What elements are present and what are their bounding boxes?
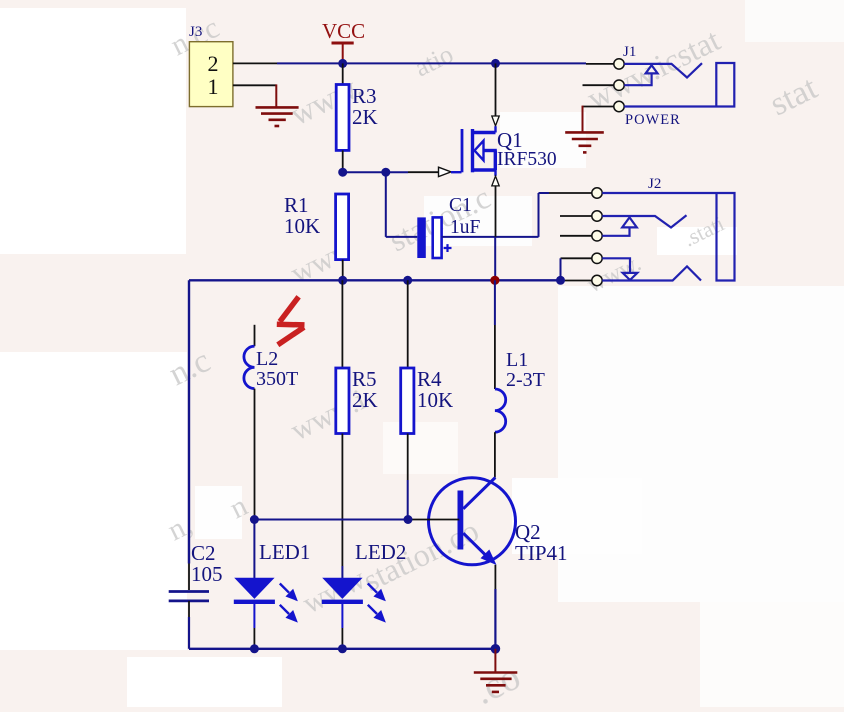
resistor R3	[336, 63, 349, 172]
connector J2 pin 3	[592, 231, 602, 241]
direction arrow on gate wire	[439, 167, 452, 176]
resistor R4	[401, 280, 414, 519]
node bus/R1/R5 junction	[338, 276, 347, 285]
wire J2 pin5 stub	[561, 280, 592, 282]
ground symbol below Q2	[474, 673, 518, 692]
svg-text:2K: 2K	[352, 388, 378, 412]
node emitter/bottom rail junction	[491, 644, 501, 654]
wire left rail down to C2	[188, 280, 190, 590]
svg-text:1uF: 1uF	[450, 217, 481, 238]
wire C2 to bottom rail	[188, 601, 190, 649]
svg-text:350T: 350T	[256, 368, 298, 390]
transistor Q1 (IRF530 MOSFET)	[462, 126, 497, 176]
svg-text:J2: J2	[648, 176, 661, 192]
svg-text:J3: J3	[189, 24, 202, 40]
wire main bus	[189, 279, 561, 281]
svg-text:C1: C1	[449, 195, 472, 216]
wire ground stem	[494, 649, 496, 672]
svg-text:IRF530: IRF530	[497, 149, 557, 170]
connector J2 pin 1	[592, 188, 602, 198]
wire arrow to Q1 gate	[451, 171, 462, 173]
wire J3 pin2 to VCC node	[233, 62, 343, 64]
node LED1/base wire junction	[250, 515, 259, 524]
svg-text:105: 105	[191, 562, 223, 586]
LED LED1	[234, 520, 296, 649]
svg-text:2-3T: 2-3T	[506, 369, 545, 391]
inductor L1	[495, 280, 506, 477]
wire J2 pin4 to bus node	[561, 258, 592, 280]
power symbol VCC	[332, 43, 354, 63]
node R4/base wire junction	[404, 515, 413, 524]
node gate/C1 branch junction	[381, 168, 390, 177]
svg-text:L2: L2	[256, 348, 278, 370]
ground symbol below J1	[565, 132, 604, 152]
node LED1/bottom rail junction	[250, 644, 259, 653]
connector J1 pin 3	[614, 101, 624, 111]
connector J1 pin 1	[614, 59, 624, 69]
wire VCC node to J1 pin1	[343, 62, 614, 65]
svg-text:10K: 10K	[284, 214, 320, 238]
svg-text:2K: 2K	[352, 105, 378, 129]
wire bottom rail	[189, 648, 495, 650]
wire J2 pin2 stub	[560, 215, 592, 217]
connector J2 pin 5	[592, 275, 602, 285]
audio jack symbol J2	[602, 193, 734, 281]
node Q1 drain / top bus junction	[491, 59, 500, 68]
capacitor C1	[417, 217, 451, 258]
direction arrow on drain wire	[492, 116, 499, 126]
connector J2 pin 4	[592, 253, 602, 263]
direction arrow on source wire	[492, 176, 499, 186]
svg-text:2: 2	[208, 51, 219, 76]
wire gate node run	[343, 171, 439, 173]
capacitor C2	[169, 592, 209, 601]
wire C1 plus to J2 pin1	[442, 193, 592, 237]
svg-text:J1: J1	[623, 44, 636, 60]
node bus/J2 pin4 junction	[556, 276, 565, 285]
svg-text:L1: L1	[506, 349, 528, 371]
spark / lightning symbol	[277, 297, 305, 345]
inductor L2	[244, 325, 255, 520]
connector J2 pin 2	[592, 211, 602, 221]
node R3/R1/gate junction	[338, 168, 347, 177]
power jack symbol J1	[624, 63, 734, 107]
wire J2 pin3 stub	[560, 235, 592, 237]
resistor R1	[336, 194, 349, 280]
node LED2/bottom rail junction	[338, 644, 347, 653]
svg-text:LED2: LED2	[355, 540, 406, 564]
wire Q1 source down to bus	[494, 186, 496, 280]
LED LED2	[322, 566, 384, 649]
wire gate node down to C1	[386, 172, 418, 237]
wire J1 pin3 to ground	[583, 106, 614, 132]
wire base node run	[254, 519, 459, 521]
svg-text:1: 1	[208, 74, 219, 99]
node bus/R4 junction	[403, 276, 412, 285]
svg-text:VCC: VCC	[322, 19, 365, 43]
node VCC junction	[338, 59, 347, 68]
svg-text:TIP41: TIP41	[515, 541, 568, 565]
connector J3	[189, 42, 233, 107]
node bus/Q1 source/L1 junction (red)	[490, 276, 499, 285]
wire Q1 drain up to top bus	[495, 63, 497, 116]
ground symbol below J3	[256, 107, 299, 126]
svg-text:POWER: POWER	[625, 112, 681, 128]
wire J3 pin1 to ground	[233, 84, 276, 107]
wire J1 pin2 stub	[583, 84, 614, 86]
transistor Q2 (TIP41)	[429, 478, 516, 566]
connector J1 pin 2	[614, 80, 624, 90]
svg-text:LED1: LED1	[259, 540, 310, 564]
wire Q2 emitter to ground node	[494, 565, 496, 649]
svg-text:10K: 10K	[417, 388, 453, 412]
resistor R5	[336, 280, 349, 566]
